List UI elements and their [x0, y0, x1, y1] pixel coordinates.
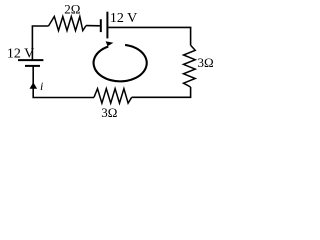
wire bottom-left segment and left vertical lower segment: [33, 66, 94, 98]
current direction arrow i (up) on left wire: [30, 82, 38, 89]
battery V1 positive plate (long bar, top): [18, 59, 43, 61]
battery V1 negative plate (short bar, bottom): [25, 65, 40, 67]
resistor R1 2ohm zigzag (top): [49, 17, 87, 31]
wire top-left corner and left vertical upper segment: [32, 26, 48, 60]
wire from battery V2 to top-right corner and down: [108, 27, 190, 45]
battery V2 negative plate (short bar): [100, 19, 102, 32]
loop arrowhead: [106, 41, 114, 46]
svg-text:2Ω: 2Ω: [64, 2, 80, 17]
svg-text:3Ω: 3Ω: [101, 105, 117, 120]
svg-text:12 V: 12 V: [110, 11, 137, 26]
wire between R1 and battery V2: [86, 25, 100, 27]
svg-text:12 V: 12 V: [7, 47, 34, 62]
battery V2 positive plate (long bar): [106, 12, 108, 39]
resistor R3 3ohm zigzag (right, vertical): [184, 45, 196, 87]
svg-text:3Ω: 3Ω: [198, 55, 214, 70]
loop direction ellipse arrow (clockwise): [94, 45, 147, 81]
svg-text:i: i: [40, 79, 43, 93]
wire right resistor to bottom-right corner: [132, 87, 191, 97]
resistor R2 3ohm zigzag (bottom): [94, 89, 132, 104]
